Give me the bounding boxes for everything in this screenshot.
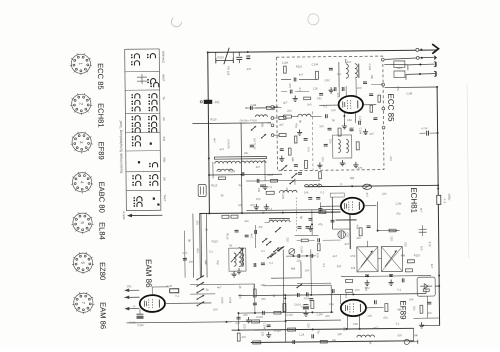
wire c169 stub [139,309,141,314]
wire h284 [215,283,254,285]
junction osc2 [292,255,294,257]
switch S2a [270,252,276,257]
svg-text:5p: 5p [298,120,302,124]
coil L107 IF choke [304,184,322,186]
wire bottom bus 1 [238,311,333,314]
resistor R131 [319,172,322,179]
tube socket EABC 80 [71,172,93,194]
capacitor C207 [350,129,354,131]
svg-text:ECH81: ECH81 [96,103,105,128]
band switch divider [126,189,160,191]
svg-text:0,1: 0,1 [268,121,272,125]
svg-text:TA: TA [162,96,166,100]
capacitor C120 [375,300,377,304]
capacitor 4700pF right [427,131,429,136]
tube socket EL84 [71,212,93,234]
svg-text:C52: C52 [353,322,358,326]
switch bank contact 1 [196,275,204,280]
svg-text:0,1: 0,1 [175,294,179,298]
svg-text:R115: R115 [229,169,236,173]
junction q2 [390,275,392,277]
wire v237 [237,313,239,330]
wire osc box v [300,261,302,277]
ground det [419,322,424,328]
svg-text:KURZW.: KURZW. [227,139,231,149]
gang terminal [271,106,274,109]
capacitor C147 [298,227,302,229]
wire det bus [414,317,440,319]
junction b1 [285,320,287,322]
resistor R222 [304,97,311,100]
switch S1b [291,173,297,178]
svg-text:220: 220 [286,237,290,242]
junction sg [377,230,379,232]
svg-text:5p: 5p [239,183,243,187]
junction q3 [284,297,286,299]
junction q1 [367,275,369,277]
capacitor C221 [290,90,292,94]
wire main bus AM [199,212,340,213]
svg-text:4n7: 4n7 [365,193,369,198]
svg-text:R115: R115 [344,292,348,299]
junction hb4 [438,285,440,287]
capacitor C216 [261,263,265,265]
svg-text:R115: R115 [296,64,303,68]
junction m3 [208,212,210,214]
wire box int2 [295,90,309,92]
wire eam grid l [124,296,139,298]
switch S5 [262,238,268,243]
resistor R141 [317,244,320,251]
tube EF89 [341,300,366,317]
coil ferrite LW [241,161,266,163]
coil osc AM [279,190,297,192]
capacitor C137 [280,149,284,151]
capacitor C149 [298,254,300,258]
svg-text:220: 220 [337,332,342,336]
svg-text:R115: R115 [267,173,274,177]
svg-text:220: 220 [307,323,311,328]
junction agc2 [310,294,312,296]
wire mix link3 [323,239,341,241]
svg-text:EF89: EF89 [97,142,106,160]
wire box right link [371,84,383,86]
capacitor C213 padder [235,230,239,232]
svg-text:10k: 10k [304,190,309,194]
svg-text:470: 470 [389,156,393,161]
switch S10 [266,241,272,246]
capacitor C140 [267,325,271,327]
resistor R209 [304,160,307,168]
capacitor C138 [253,303,257,305]
svg-text:2,2M: 2,2M [316,312,323,316]
output jack [404,339,409,344]
svg-text:0,1: 0,1 [298,88,302,92]
wire cap stub2 [430,132,438,134]
wire eam plate [165,302,211,304]
contact dot a [153,197,155,199]
bus end chevron arrow [432,44,438,54]
resistor R121 [311,300,314,308]
wire ef89 out [366,307,383,309]
coil AM oscillator [239,247,243,266]
switch S9 [275,227,281,232]
label box am250 [330,193,344,197]
wire right HT bus [437,87,439,325]
svg-text:5p: 5p [299,216,303,220]
svg-text:DREHKO: DREHKO [161,51,165,64]
svg-text:220: 220 [287,109,292,113]
svg-text:4n7: 4n7 [369,132,374,136]
coil antenna match [255,115,267,117]
switch S7 [261,134,266,139]
wire v2535 [254,284,256,313]
svg-text:5p: 5p [369,341,373,345]
wire bottom bus 2 [227,320,286,323]
capacitor C202b plate [246,55,250,57]
ground fr1 [254,204,259,210]
svg-text:KW: KW [162,137,166,142]
coil osc FM [298,114,311,116]
fuse FE125 on top bus [215,58,217,63]
svg-text:100: 100 [238,203,243,207]
svg-text:68k: 68k [397,307,402,311]
ground t2 [363,129,368,135]
capacitor C118 [389,275,393,277]
junction fr3 [241,174,243,176]
capacitor C225 [334,87,336,91]
wire tuning gang line [192,122,246,125]
switch bank contact 4 [196,295,204,300]
switch contacts row3 [131,94,157,112]
resistor R201 [315,71,318,79]
junction hv [437,188,439,190]
capacitor C208 [324,144,328,146]
ground fr2 [264,204,269,210]
svg-text:C104: C104 [263,323,267,330]
svg-text:470: 470 [261,297,266,301]
ground am2 [308,225,313,231]
svg-text:0,1: 0,1 [337,72,341,76]
ground T4 [231,271,236,277]
svg-text:2,2M: 2,2M [282,61,289,65]
wire osc h256 [286,255,316,257]
svg-text:47p: 47p [383,316,388,320]
svg-text:5p: 5p [205,227,209,231]
junction m2 [241,212,243,214]
wire eam top [151,287,153,295]
junction eam [226,321,228,323]
resistor R116 [385,304,388,312]
junction ab2 [247,51,249,53]
wire fm left1 [245,107,247,109]
wire sg h [378,229,400,231]
svg-text:C104: C104 [228,297,232,304]
junction [437,184,439,186]
gang terminal [271,134,274,137]
svg-text:EAM 86: EAM 86 [144,259,153,288]
trimmer pair [419,228,427,230]
capacitor C117 [365,275,369,277]
svg-text:2,2M: 2,2M [293,179,297,186]
svg-text:1n5: 1n5 [367,314,372,318]
wire am mid bus [209,173,282,176]
svg-text:22n: 22n [356,236,361,240]
tube socket EAM 86 [72,292,94,314]
svg-text:0,1: 0,1 [268,207,272,211]
wire ta line [282,250,285,313]
svg-text:5p: 5p [332,118,336,122]
svg-text:C52: C52 [127,284,132,288]
coil L1 FM input [346,64,349,78]
wire grid cap ech81 [319,202,321,212]
svg-text:R115: R115 [211,183,218,187]
switch bank contact 3 [196,288,204,293]
svg-text:4,7M: 4,7M [166,284,172,288]
wire cap stub [420,132,426,134]
svg-text:C104: C104 [220,297,224,304]
wire ech81 g1 [320,205,340,207]
svg-text:220: 220 [404,242,408,247]
wire eam bus [127,322,232,323]
wire under ech81 bold [335,219,356,221]
svg-text:C104: C104 [312,62,319,66]
svg-text:TAST: TAST [163,194,167,201]
scan mark circle right [308,14,319,25]
wire ecc85 anode [363,104,376,106]
resistor R223 [378,95,381,102]
resistor R110 oval [363,184,372,189]
svg-text:190V: 190V [447,193,451,200]
svg-text:4n7: 4n7 [347,60,352,64]
junction bm1 [254,312,256,314]
junction [351,185,353,187]
svg-text:EABC 80: EABC 80 [97,182,106,213]
svg-text:22n: 22n [382,192,387,196]
switch contacts row8 [133,197,142,207]
wire fm int3 [281,79,291,81]
trimmer C215 [289,249,295,255]
coil T1 primary [338,139,340,152]
wire fm mid2 [291,115,298,117]
tube socket EF89 [71,132,93,154]
resistor R120 [288,328,296,331]
svg-text:C104: C104 [368,63,372,70]
svg-text:240: 240 [397,66,402,70]
svg-text:470: 470 [325,314,330,318]
capacitor C126 [254,263,256,267]
capacitor C148 [306,227,310,229]
ground if1 [365,280,370,286]
paper crease [467,85,469,258]
resistor R246 [389,229,396,232]
junction b2 [312,328,314,330]
svg-text:4700pF: 4700pF [301,305,310,308]
svg-text:5p: 5p [221,193,225,197]
tube ECC85 [338,96,363,113]
resistor R225 [370,105,373,112]
svg-text:R115: R115 [218,55,225,59]
wire fm left3 [274,107,281,109]
ground ecc85 [342,123,347,129]
wire drop to switch bank [192,214,195,278]
svg-text:4,7n: 4,7n [182,251,188,255]
svg-text:68k: 68k [401,253,406,257]
coil oscillator main [269,218,290,222]
capacitor C226 [342,87,344,91]
capacitor C227 [304,139,308,141]
folded dipole 240 ohm [394,61,405,78]
junction osc3 [306,255,308,257]
svg-text:1n5: 1n5 [307,147,311,152]
svg-text:4n7: 4n7 [219,147,224,151]
svg-text:0,1: 0,1 [343,327,347,331]
capacitor C223 [373,118,377,120]
svg-text:4n7: 4n7 [373,326,378,330]
resistor R137 [237,333,240,341]
svg-text:C169: C169 [137,323,144,327]
wire bottom bus 4 [251,341,414,343]
ground am1 [263,184,268,190]
svg-text:0,1: 0,1 [269,261,273,265]
svg-text:LW: LW [163,177,167,181]
switch S6 [251,126,256,131]
resistor R111 [359,228,362,236]
svg-text:68k: 68k [291,267,296,271]
ground osc [236,268,241,274]
svg-text:R115: R115 [212,239,219,243]
capacitor C206 [328,128,332,130]
tuner box terminal [382,83,385,86]
svg-text:0,47µ: 0,47µ [129,320,136,324]
scan mark circle left [171,18,181,27]
svg-text:4,7nF: 4,7nF [421,126,428,130]
wire ef89 k2 [358,316,360,329]
capacitor C123 [312,334,314,338]
junction ab1 [207,51,209,53]
capacitor C228 [369,94,373,96]
svg-text:1n5: 1n5 [364,287,368,292]
svg-text:0,1: 0,1 [320,190,324,194]
svg-text:68k: 68k [414,333,419,337]
svg-text:100: 100 [238,294,242,299]
coil KW [217,169,233,171]
svg-text:470: 470 [196,248,200,253]
svg-text:4n7: 4n7 [213,138,217,143]
junction t3 [343,115,345,117]
junction m4 [331,211,333,213]
wire det down [426,296,428,318]
band switch divider [125,89,159,91]
wire osc h236 [295,234,319,236]
svg-text:1n5: 1n5 [396,86,400,91]
wire T3 link [378,258,381,260]
wire left sub bus [200,214,203,278]
terminal 2 drop [407,65,409,70]
ground fmbox1 [317,162,322,168]
wire ef89 in [286,319,341,322]
svg-text:4n7: 4n7 [250,234,254,239]
svg-text:10k: 10k [351,266,356,270]
resistor R205 [266,106,274,109]
resistor R207 [279,134,286,137]
capacitor C150 [311,254,313,258]
junction q7 [359,328,361,330]
contact dot d [150,143,152,145]
junction q6 [346,328,348,330]
switch contacts UKW [131,54,156,66]
svg-text:TA 8: TA 8 [304,296,310,300]
switch bank contact 2 [196,282,204,287]
contact dot c [138,161,140,163]
resistor R165 [170,289,179,293]
resistor R203 [338,128,341,136]
ground fm input [329,87,334,93]
capacitor C144 [427,302,431,304]
svg-text:22n: 22n [285,187,289,192]
switch contacts row4 [132,116,157,133]
capacitor C114 [308,198,312,200]
wire agc bus [238,294,426,296]
wire IF gnd bus [341,275,431,278]
capacitor C134 [255,230,257,234]
wire bottom bus 3 [232,328,414,330]
resistor R245 on bus [437,195,441,204]
capacitor C125 [237,317,241,319]
svg-text:470: 470 [214,100,219,104]
wire box int3 [338,87,340,97]
switch S11 [277,247,283,252]
capacitor C212 [260,185,264,187]
electrolytic C121 [303,303,308,305]
capacitor C122 [297,293,299,297]
wire bank bus [190,283,215,285]
band switch divider [125,112,159,114]
wire am v1 [264,160,266,181]
junction q4 [311,311,313,313]
junction fr1 [208,157,210,159]
ground t1 [293,95,298,101]
svg-text:22n: 22n [412,306,416,311]
wire right end bottom [413,328,415,340]
band switch divider [126,170,160,172]
wire ecc85 grid [319,104,338,106]
switch bank contact 5 [197,301,205,306]
wire ech81 k [349,214,351,249]
capacitor C124 [306,292,308,296]
svg-text:EAM 86: EAM 86 [98,302,107,329]
tuner box terminal [382,126,385,129]
wire ech81 out [364,205,376,207]
resistor R221 [284,66,287,73]
IF transformer T1 frame [333,135,352,158]
svg-text:1n5: 1n5 [316,253,320,258]
gang terminal [271,117,274,120]
capacitor C142 4700 [309,299,313,301]
capacitor C115 [316,197,320,199]
resistor R115 [407,260,414,263]
svg-text:2,2M: 2,2M [358,116,362,123]
terminal arrow [124,307,129,311]
wire osc v312 [311,210,313,235]
wire am in 2 [218,170,221,172]
wire gang3 [274,134,279,136]
wire am grid line [246,179,320,182]
switch contacts row6 [149,163,158,168]
junction bm2 [238,329,240,331]
tuner box terminal [381,58,384,61]
svg-text:47p: 47p [396,211,401,215]
